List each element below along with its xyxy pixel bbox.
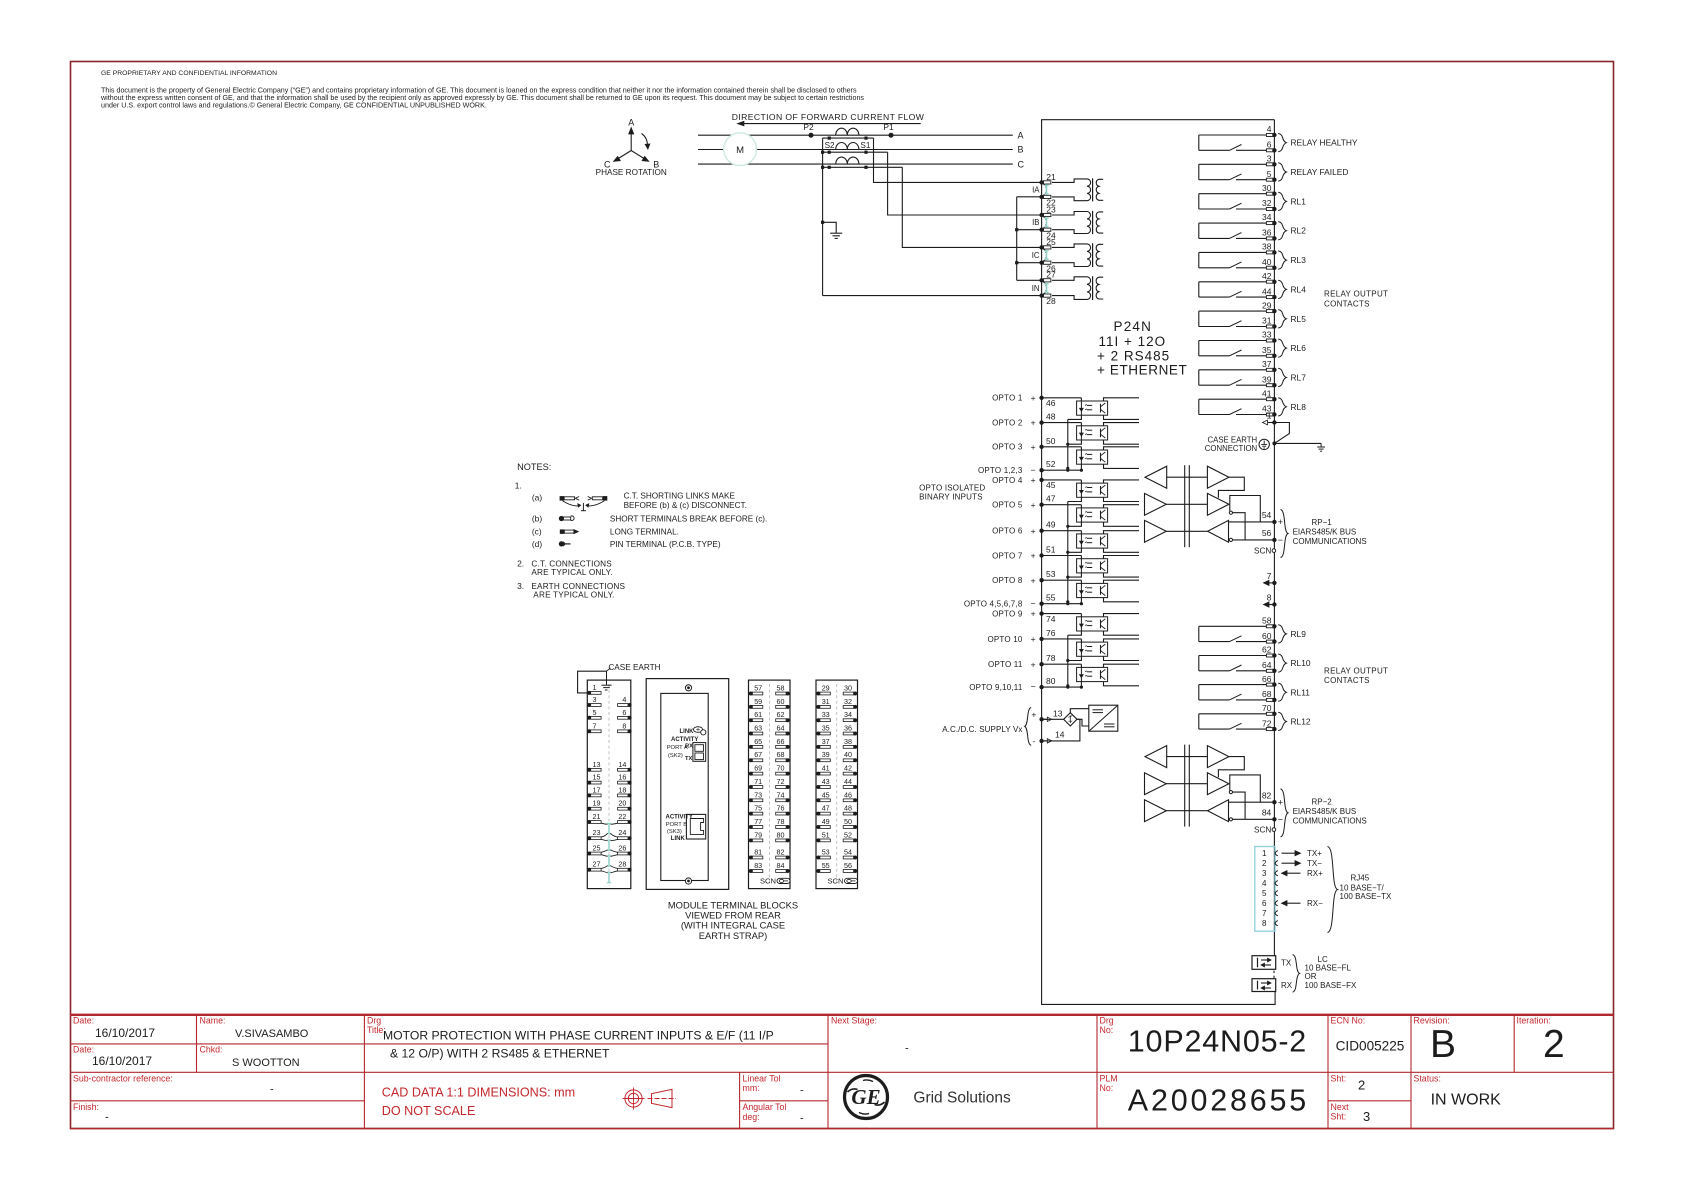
svg-text:A20028655: A20028655 xyxy=(1128,1084,1309,1118)
svg-text:+ ETHERNET: + ETHERNET xyxy=(1097,363,1187,378)
label OPTO 10 + xyxy=(987,634,1035,644)
svg-text:deg:: deg: xyxy=(743,1112,760,1122)
svg-text:EARTH STRAP): EARTH STRAP) xyxy=(699,930,768,941)
svg-text:IN: IN xyxy=(1032,284,1040,293)
svg-text:78: 78 xyxy=(777,817,785,826)
block3 terminal 67 xyxy=(749,750,763,762)
svg-text:83: 83 xyxy=(754,861,762,870)
svg-text:72: 72 xyxy=(1262,718,1272,728)
block4 terminal 30 xyxy=(843,684,857,696)
svg-text:(SK3): (SK3) xyxy=(667,829,682,835)
svg-text:44: 44 xyxy=(1262,286,1272,296)
block3 terminal 80 xyxy=(776,830,790,842)
svg-text:TX+: TX+ xyxy=(1307,849,1322,858)
svg-text:mm:: mm: xyxy=(743,1083,760,1093)
svg-text:+: + xyxy=(1031,418,1036,428)
svg-text:15: 15 xyxy=(593,773,601,782)
svg-text:+: + xyxy=(1031,659,1036,669)
block4 terminal 44 xyxy=(843,777,857,789)
block3 terminal 65 xyxy=(749,737,763,749)
svg-text:7: 7 xyxy=(1267,571,1272,581)
svg-text:78: 78 xyxy=(1046,653,1056,663)
block4 terminal 43 xyxy=(816,777,830,789)
svg-text:7: 7 xyxy=(593,721,597,730)
block3 terminal 57 xyxy=(749,684,763,696)
field Angular Tol xyxy=(743,1102,805,1125)
svg-text:6: 6 xyxy=(1267,140,1272,150)
svg-text:30: 30 xyxy=(1262,183,1272,193)
relay output contacts label lower xyxy=(1324,666,1388,685)
block1 terminal 1 xyxy=(587,683,601,695)
svg-text:under U.S. export control laws: under U.S. export control laws and regul… xyxy=(101,102,487,110)
svg-text:RL7: RL7 xyxy=(1291,373,1307,383)
block3 SCN terminal xyxy=(760,877,790,886)
Grid Solutions wordmark xyxy=(913,1090,1011,1107)
block3 terminal 66 xyxy=(776,737,790,749)
svg-text:IC: IC xyxy=(1032,251,1040,260)
label OPTO 6 + xyxy=(992,526,1036,536)
opto isolator input OPTO 8 xyxy=(1039,578,1139,604)
field Chkd xyxy=(200,1045,300,1070)
svg-text:47: 47 xyxy=(822,804,830,813)
svg-text:V.SIVASAMBO: V.SIVASAMBO xyxy=(235,1028,309,1040)
svg-text:OPTO 4: OPTO 4 xyxy=(992,476,1023,485)
svg-text:Drg: Drg xyxy=(1100,1016,1114,1026)
label OPTO 11 + xyxy=(988,659,1036,669)
note 2 xyxy=(517,559,613,577)
svg-text:72: 72 xyxy=(777,777,785,786)
terminal 49 xyxy=(1046,520,1056,530)
relay model label xyxy=(1097,319,1187,378)
svg-text:RL9: RL9 xyxy=(1291,629,1307,639)
svg-text:OPTO 1,2,3: OPTO 1,2,3 xyxy=(978,466,1023,475)
svg-text:70: 70 xyxy=(1262,703,1272,713)
direction of forward current flow label xyxy=(732,112,925,126)
note (d) text xyxy=(610,540,721,549)
terminal 28 xyxy=(1039,293,1056,306)
svg-text:4: 4 xyxy=(1267,124,1272,134)
svg-text:27: 27 xyxy=(1046,270,1056,280)
block3 terminal 83 xyxy=(749,861,763,873)
svg-text:Next: Next xyxy=(1331,1102,1350,1112)
svg-text:2: 2 xyxy=(1543,1023,1565,1066)
wire return bus to terminal 22 xyxy=(1017,196,1042,198)
opto isolator input OPTO 1 xyxy=(1039,396,1139,420)
svg-text:28: 28 xyxy=(1046,296,1056,306)
svg-text:DIRECTION OF FORWARD CURREN: DIRECTION OF FORWARD CURRENT FLOW xyxy=(732,112,925,122)
svg-text:11I + 12O: 11I + 12O xyxy=(1099,334,1167,349)
svg-text:66: 66 xyxy=(1262,674,1272,684)
opto isolator input OPTO 4 xyxy=(1039,478,1139,502)
svg-text:+: + xyxy=(1031,709,1036,719)
terminal 50 xyxy=(1046,436,1056,446)
terminal 56 xyxy=(1262,528,1283,545)
svg-text:RL3: RL3 xyxy=(1291,255,1307,265)
note (d) symbol xyxy=(532,539,571,549)
svg-text:64: 64 xyxy=(777,724,785,733)
svg-text:38: 38 xyxy=(844,737,852,746)
CT phase C xyxy=(836,157,859,164)
svg-text:49: 49 xyxy=(822,817,830,826)
GE proprietary header text xyxy=(100,70,864,110)
RJ45 connector xyxy=(1255,847,1278,932)
svg-text:16/10/2017: 16/10/2017 xyxy=(95,1026,155,1040)
svg-text:56: 56 xyxy=(844,861,852,870)
svg-text:OPTO 5: OPTO 5 xyxy=(992,501,1023,510)
field Revision xyxy=(1414,1016,1457,1067)
svg-text:37: 37 xyxy=(1262,359,1272,369)
svg-text:19: 19 xyxy=(593,799,601,808)
svg-text:C: C xyxy=(1018,159,1025,169)
svg-text:47: 47 xyxy=(1046,494,1056,504)
svg-text:33: 33 xyxy=(1262,330,1272,340)
note (b) symbol xyxy=(532,514,574,524)
svg-text:+: + xyxy=(1031,442,1036,452)
wire rectifier to converter lower xyxy=(1077,719,1089,726)
svg-text:100 BASE−FX: 100 BASE−FX xyxy=(1305,981,1357,990)
phase rotation symbol xyxy=(596,118,667,177)
block1 terminal 25 xyxy=(587,844,601,856)
svg-text:SCN: SCN xyxy=(827,877,843,886)
block4 outline xyxy=(816,680,858,889)
svg-text:16/10/2017: 16/10/2017 xyxy=(92,1054,152,1068)
block1 terminal 22 xyxy=(618,812,632,824)
svg-text:(a): (a) xyxy=(532,493,542,503)
svg-text:RJ45: RJ45 xyxy=(1351,874,1370,883)
svg-text:77: 77 xyxy=(754,817,762,826)
phase B label xyxy=(1018,145,1024,155)
svg-text:84: 84 xyxy=(1262,807,1272,817)
block1 terminal 13 xyxy=(587,760,601,772)
svg-text:No:: No: xyxy=(1100,1083,1114,1093)
block4 terminal 37 xyxy=(816,737,830,749)
svg-text:30: 30 xyxy=(844,684,852,693)
svg-text:14: 14 xyxy=(618,760,626,769)
svg-text:RL1: RL1 xyxy=(1291,196,1307,206)
svg-text:Date:: Date: xyxy=(73,1045,94,1055)
svg-text:3: 3 xyxy=(1262,869,1267,878)
relay output contact RL10 xyxy=(1199,645,1311,673)
svg-text:81: 81 xyxy=(754,848,762,857)
block4 terminal 46 xyxy=(843,790,857,802)
svg-text:61: 61 xyxy=(754,710,762,719)
svg-text:COMMUNICATIONS: COMMUNICATIONS xyxy=(1293,537,1367,546)
current input label IN xyxy=(1032,284,1040,293)
block1 terminal 4 xyxy=(618,695,632,707)
svg-text:7: 7 xyxy=(1262,909,1267,918)
svg-text:OPTO 9,10,11: OPTO 9,10,11 xyxy=(969,683,1023,692)
svg-text:A: A xyxy=(1018,130,1024,140)
bridge rectifier xyxy=(1064,713,1077,726)
block4 terminal 31 xyxy=(816,697,830,709)
label OPTO 9 + xyxy=(992,609,1036,619)
terminal 52 common xyxy=(978,459,1083,475)
block3 terminal 77 xyxy=(749,817,763,829)
CT shorting link IC xyxy=(1044,250,1049,261)
svg-text:68: 68 xyxy=(777,750,785,759)
svg-text:42: 42 xyxy=(1262,271,1272,281)
svg-text:OPTO ISOLATED: OPTO ISOLATED xyxy=(919,484,985,493)
note (b) text xyxy=(610,515,767,524)
svg-text:35: 35 xyxy=(1262,345,1272,355)
relay output contact RL1 xyxy=(1199,183,1306,211)
wire return bus vertical xyxy=(1015,197,1018,280)
port A LED indicator xyxy=(693,727,706,735)
block4 terminal 29 xyxy=(816,684,830,696)
block3 terminal 71 xyxy=(749,777,763,789)
wire return to terminal 26 xyxy=(1017,262,1042,264)
svg-text:OPTO 2: OPTO 2 xyxy=(992,419,1023,428)
wire earth bus to terminal 28 xyxy=(823,295,1042,297)
svg-text:36: 36 xyxy=(844,724,852,733)
phase A line xyxy=(698,134,1013,136)
svg-text:IN WORK: IN WORK xyxy=(1431,1092,1502,1109)
svg-text:34: 34 xyxy=(1262,212,1272,222)
svg-text:80: 80 xyxy=(777,830,785,839)
svg-text:45: 45 xyxy=(1046,480,1056,490)
note (c) text xyxy=(610,528,679,537)
node P1 xyxy=(883,122,894,138)
svg-text:Drg: Drg xyxy=(367,1016,381,1026)
case earth strap wire xyxy=(578,668,611,693)
relay output contact RL9 xyxy=(1199,616,1306,644)
terminal block 1 outline xyxy=(587,680,631,889)
block4 terminal 54 xyxy=(843,848,857,860)
phase C line xyxy=(698,163,1013,165)
block1 terminal 27 xyxy=(587,860,601,872)
svg-text:PIN TERMINAL (P.C.B. TYPE): PIN TERMINAL (P.C.B. TYPE) xyxy=(610,540,721,549)
relay output contact RL2 xyxy=(1199,212,1306,240)
CT shorting link IB xyxy=(1044,217,1049,227)
svg-text:S1: S1 xyxy=(860,141,870,150)
terminal 14 xyxy=(1039,730,1064,743)
input transformer IC xyxy=(1052,243,1103,267)
svg-text:21: 21 xyxy=(1046,172,1056,182)
svg-text:32: 32 xyxy=(1262,198,1272,208)
svg-text:A.C./D.C. SUPPLY Vx: A.C./D.C. SUPPLY Vx xyxy=(942,725,1022,734)
svg-text:17: 17 xyxy=(593,785,601,794)
comms module outline xyxy=(646,679,729,890)
svg-text:82: 82 xyxy=(1262,790,1272,800)
field PLM No xyxy=(1100,1074,1310,1118)
svg-text:2.: 2. xyxy=(517,559,524,569)
relay output contacts label upper xyxy=(1324,290,1388,309)
svg-text:27: 27 xyxy=(593,860,601,869)
svg-text:69: 69 xyxy=(754,764,762,773)
svg-text:50: 50 xyxy=(844,817,852,826)
svg-text:B: B xyxy=(1018,145,1024,155)
CT A secondary winding xyxy=(823,137,874,140)
projection symbol xyxy=(623,1088,677,1110)
GE logo xyxy=(845,1076,888,1119)
note (a) symbol xyxy=(532,493,607,511)
field Status xyxy=(1414,1074,1502,1109)
svg-text:5: 5 xyxy=(1262,889,1267,898)
svg-text:13: 13 xyxy=(1053,708,1063,718)
svg-text:24: 24 xyxy=(618,828,626,837)
svg-text:71: 71 xyxy=(754,777,762,786)
field ECN No xyxy=(1331,1016,1405,1054)
field Next Stage xyxy=(831,1016,909,1055)
svg-text:S2: S2 xyxy=(825,141,835,150)
svg-text:5: 5 xyxy=(593,708,597,717)
svg-text:1.: 1. xyxy=(515,480,522,490)
svg-text:74: 74 xyxy=(777,790,785,799)
svg-text:+: + xyxy=(1031,393,1036,403)
terminal 23 xyxy=(1039,204,1056,217)
svg-text:+: + xyxy=(1278,517,1283,527)
svg-text:OPTO 3: OPTO 3 xyxy=(992,443,1023,452)
relay output contact RL7 xyxy=(1199,359,1306,387)
svg-text:(SK2): (SK2) xyxy=(668,753,683,759)
block3 terminal 70 xyxy=(776,764,790,776)
note (a) text xyxy=(624,492,747,510)
svg-text:P2: P2 xyxy=(803,122,814,132)
svg-text:3: 3 xyxy=(593,695,597,704)
svg-text:13: 13 xyxy=(593,760,601,769)
svg-text:37: 37 xyxy=(822,737,830,746)
note 3 xyxy=(517,581,625,599)
block4 terminal 36 xyxy=(843,724,857,736)
svg-text:NOTES:: NOTES: xyxy=(517,462,551,472)
opto isolator input OPTO 5 xyxy=(1039,503,1139,527)
svg-text:56: 56 xyxy=(1262,528,1272,538)
svg-text:36: 36 xyxy=(1262,228,1272,238)
svg-text:RX−: RX− xyxy=(1307,899,1323,908)
S1 label xyxy=(860,141,870,150)
svg-text:RELAY OUTPUT: RELAY OUTPUT xyxy=(1324,666,1388,675)
svg-text:73: 73 xyxy=(754,790,762,799)
RJ45 pin 2 signal TX− xyxy=(1282,859,1323,868)
block1 terminal 23 xyxy=(587,828,601,840)
block1 terminal 19 xyxy=(587,799,601,811)
svg-text:RELAY HEALTHY: RELAY HEALTHY xyxy=(1291,138,1358,148)
svg-text:46: 46 xyxy=(1046,398,1056,408)
block1 terminal 6 xyxy=(618,708,632,720)
svg-text:+: + xyxy=(1031,634,1036,644)
block3 terminal 81 xyxy=(749,848,763,860)
block1 terminal 18 xyxy=(618,785,632,797)
field Finish xyxy=(73,1102,109,1124)
svg-text:TX−: TX− xyxy=(1307,859,1322,868)
svg-text:57: 57 xyxy=(754,684,762,693)
svg-text:31: 31 xyxy=(1262,316,1272,326)
svg-text:4: 4 xyxy=(622,695,626,704)
block4 terminal 40 xyxy=(843,750,857,762)
svg-text:39: 39 xyxy=(1262,374,1272,384)
svg-text:48: 48 xyxy=(844,804,852,813)
block4 terminal 32 xyxy=(843,697,857,709)
svg-text:23: 23 xyxy=(1046,204,1056,214)
svg-text:60: 60 xyxy=(1262,631,1272,641)
svg-text:SCN: SCN xyxy=(1254,547,1271,556)
svg-text:51: 51 xyxy=(1046,545,1056,555)
svg-text:14: 14 xyxy=(1055,730,1065,740)
block3 terminal 60 xyxy=(776,697,790,709)
block4 SCN terminal xyxy=(827,877,857,886)
RJ45 label xyxy=(1328,847,1392,933)
motor M xyxy=(724,133,757,166)
RJ45 pin 6 signal RX− xyxy=(1282,899,1324,908)
block1 terminal 5 xyxy=(587,708,601,720)
svg-text:68: 68 xyxy=(1262,689,1272,699)
svg-text:82: 82 xyxy=(777,848,785,857)
svg-text:Grid Solutions: Grid Solutions xyxy=(913,1090,1011,1107)
block1 terminal 24 xyxy=(618,828,632,840)
svg-text:RL6: RL6 xyxy=(1291,343,1307,353)
svg-text:SCN: SCN xyxy=(760,877,776,886)
svg-text:EIARS485/K BUS: EIARS485/K BUS xyxy=(1293,807,1357,816)
svg-text:10 BASE−T/: 10 BASE−T/ xyxy=(1340,883,1385,892)
node P2 xyxy=(803,122,814,138)
svg-text:PHASE ROTATION: PHASE ROTATION xyxy=(596,168,667,177)
svg-text:RL10: RL10 xyxy=(1291,658,1311,668)
ground symbol xyxy=(1317,443,1325,451)
S2 label xyxy=(825,141,835,150)
svg-text:RX: RX xyxy=(685,744,693,750)
svg-text:+: + xyxy=(1031,575,1036,585)
svg-text:P1: P1 xyxy=(883,122,894,132)
block3 terminal 63 xyxy=(749,724,763,736)
svg-text:3: 3 xyxy=(1267,154,1272,164)
terminal 46 xyxy=(1046,398,1056,408)
svg-text:62: 62 xyxy=(777,710,785,719)
block1 terminal 26 xyxy=(618,844,632,856)
svg-text:RP−2: RP−2 xyxy=(1312,797,1333,806)
block1 terminal 8 xyxy=(618,721,632,733)
svg-text:MOTOR PROTECTION WITH PHASE CU: MOTOR PROTECTION WITH PHASE CURRENT INPU… xyxy=(383,1029,774,1043)
svg-text:+: + xyxy=(1031,526,1036,536)
CT C secondary winding xyxy=(823,166,903,169)
svg-text:33: 33 xyxy=(822,710,830,719)
block4 terminal 33 xyxy=(816,710,830,722)
svg-text:RL12: RL12 xyxy=(1291,717,1311,727)
block4 terminal 38 xyxy=(843,737,857,749)
svg-text:Date:: Date: xyxy=(73,1016,94,1026)
svg-text:RL5: RL5 xyxy=(1291,314,1307,324)
block3 terminal 78 xyxy=(776,817,790,829)
terminal 47 xyxy=(1046,494,1056,504)
port B RJ45 jack xyxy=(686,814,705,839)
svg-text:-: - xyxy=(905,1043,909,1055)
block1 terminal 17 xyxy=(587,785,601,797)
svg-text:8: 8 xyxy=(1262,919,1267,928)
svg-text:+: + xyxy=(1031,609,1036,619)
svg-text:Status:: Status: xyxy=(1414,1074,1441,1084)
svg-text:(d): (d) xyxy=(532,539,542,549)
terminal 25 xyxy=(1039,237,1056,250)
svg-text:& 12 O/P) WITH 2 RS485 & ETHER: & 12 O/P) WITH 2 RS485 & ETHERNET xyxy=(390,1047,610,1061)
wire S2 common bus xyxy=(821,138,824,296)
svg-text:OPTO 9: OPTO 9 xyxy=(992,610,1023,619)
svg-text:79: 79 xyxy=(754,830,762,839)
wire 13 to rectifier xyxy=(1044,718,1064,720)
block3 terminal 59 xyxy=(749,697,763,709)
svg-text:54: 54 xyxy=(1262,510,1272,520)
block3 terminal 82 xyxy=(776,848,790,860)
label OPTO 2 + xyxy=(992,418,1036,428)
svg-text:54: 54 xyxy=(844,848,852,857)
field Date 1 xyxy=(73,1016,155,1041)
terminal 22 xyxy=(1039,195,1056,208)
RP-2 label xyxy=(1281,789,1367,837)
block4 terminal 55 xyxy=(816,861,830,873)
svg-text:BINARY INPUTS: BINARY INPUTS xyxy=(919,493,983,502)
svg-text:S WOOTTON: S WOOTTON xyxy=(232,1057,300,1069)
svg-text:ACTIVITY: ACTIVITY xyxy=(666,815,693,821)
wire return to terminal 27 xyxy=(1017,279,1042,281)
block4 terminal 39 xyxy=(816,750,830,762)
